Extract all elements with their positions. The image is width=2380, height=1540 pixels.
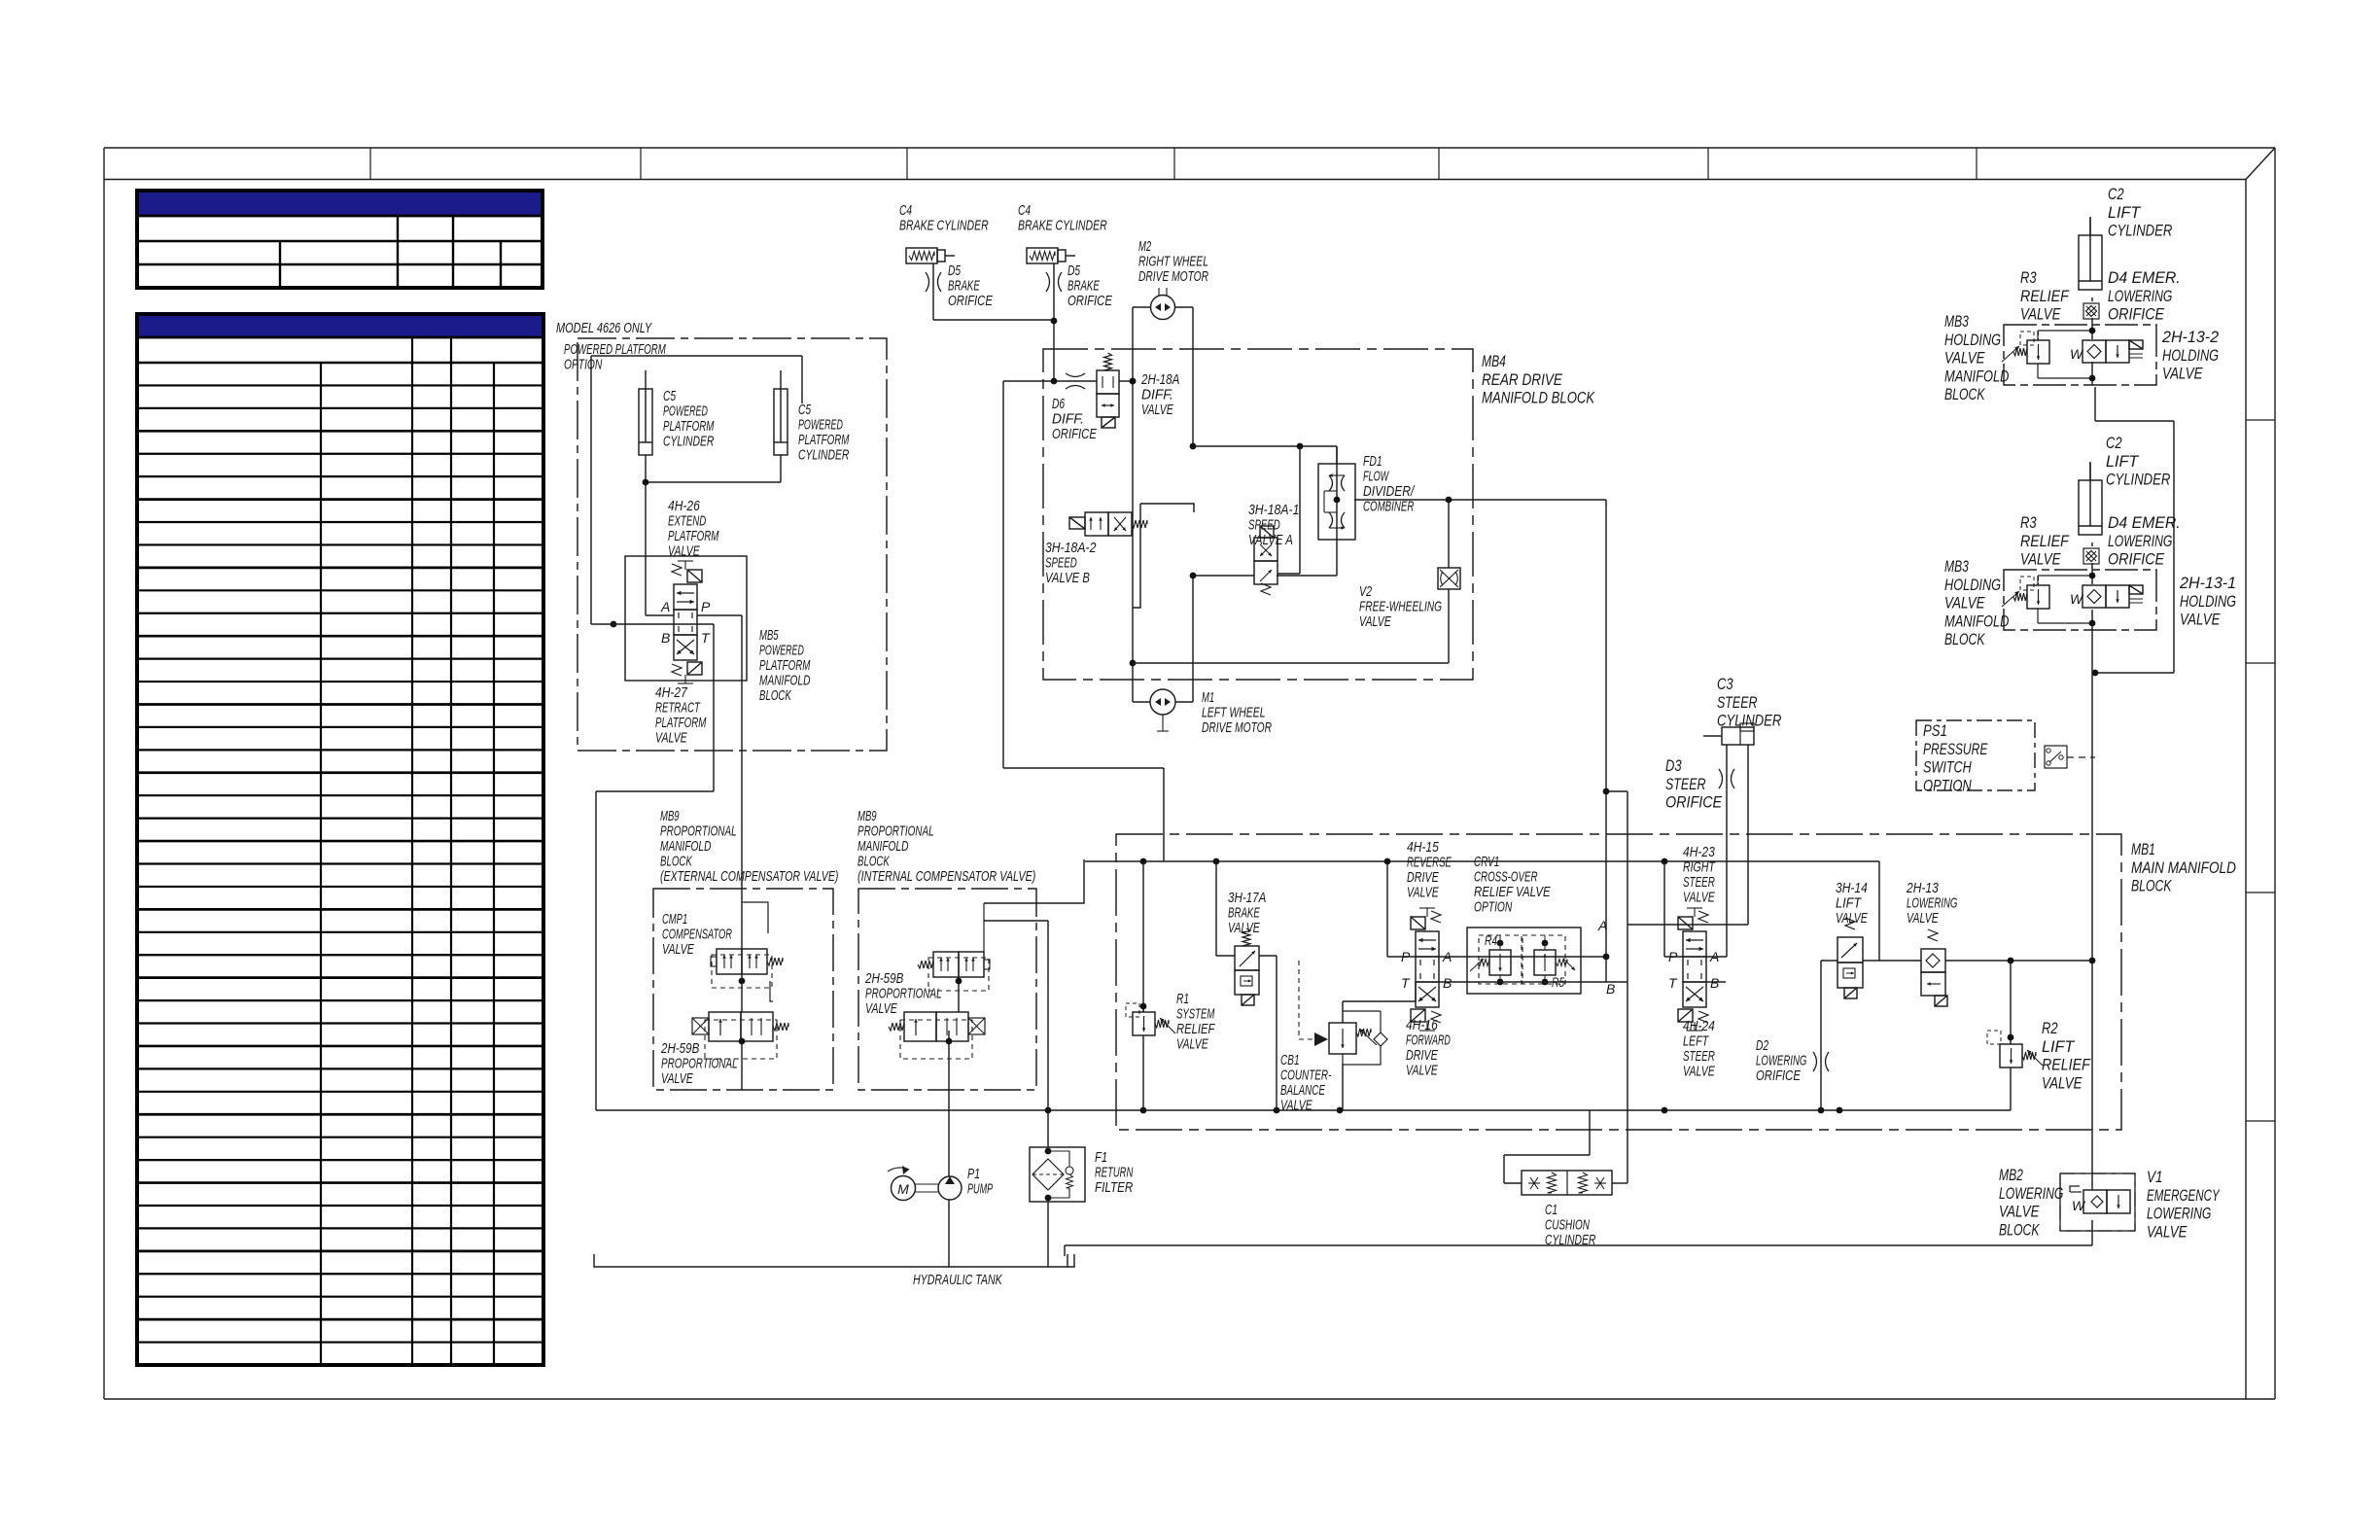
svg-text:W: W	[2072, 1198, 2086, 1213]
svg-text:2H-13: 2H-13	[1906, 880, 1939, 896]
svg-text:CYLINDER: CYLINDER	[663, 434, 715, 450]
svg-text:PROPORTIONAL: PROPORTIONAL	[857, 823, 934, 840]
svg-text:CMP1: CMP1	[662, 911, 687, 927]
svg-text:V2: V2	[1359, 583, 1373, 600]
svg-text:C5: C5	[663, 388, 677, 404]
svg-text:C4: C4	[1018, 202, 1031, 219]
svg-text:STEER: STEER	[1665, 775, 1706, 793]
svg-text:VALVE: VALVE	[2020, 305, 2061, 324]
svg-text:ORIFICE: ORIFICE	[1067, 293, 1113, 309]
svg-text:VALVE: VALVE	[1406, 1063, 1438, 1079]
svg-text:VALVE: VALVE	[655, 730, 687, 747]
svg-text:M: M	[897, 1181, 909, 1197]
svg-text:RELIEF: RELIEF	[1176, 1021, 1215, 1037]
svg-text:MB3: MB3	[1944, 312, 1969, 331]
svg-text:HOLDING: HOLDING	[2180, 592, 2236, 611]
svg-text:POWERED: POWERED	[663, 403, 708, 420]
svg-text:HOLDING: HOLDING	[2162, 346, 2219, 365]
svg-text:MANIFOLD: MANIFOLD	[759, 673, 811, 689]
svg-text:VALVE: VALVE	[1683, 890, 1715, 906]
svg-text:LOWERING: LOWERING	[1756, 1053, 1807, 1069]
svg-text:SWITCH: SWITCH	[1923, 758, 1972, 777]
svg-text:ORIFICE: ORIFICE	[1756, 1067, 1802, 1084]
svg-text:VALVE: VALVE	[2162, 365, 2203, 383]
svg-text:HYDRAULIC TANK: HYDRAULIC TANK	[913, 1272, 1002, 1288]
svg-text:LEFT: LEFT	[1683, 1033, 1710, 1050]
svg-text:VALVE: VALVE	[2020, 550, 2061, 569]
svg-text:4H-16: 4H-16	[1406, 1017, 1438, 1033]
svg-text:4H-15: 4H-15	[1407, 839, 1439, 856]
svg-text:FORWARD: FORWARD	[1406, 1032, 1451, 1049]
svg-text:D6: D6	[1052, 396, 1066, 412]
svg-text:PLATFORM: PLATFORM	[655, 715, 707, 731]
svg-text:STEER: STEER	[1683, 1048, 1715, 1065]
svg-text:MB1: MB1	[2131, 840, 2155, 858]
svg-text:MANIFOLD BLOCK: MANIFOLD BLOCK	[1482, 389, 1595, 407]
svg-text:VALVE: VALVE	[1280, 1098, 1312, 1114]
svg-text:COMBINER: COMBINER	[1363, 499, 1415, 515]
svg-text:PLATFORM: PLATFORM	[798, 432, 850, 448]
svg-text:MB4: MB4	[1482, 352, 1506, 370]
svg-text:C4: C4	[899, 202, 912, 219]
svg-text:VALVE: VALVE	[1359, 613, 1391, 630]
svg-text:MANIFOLD: MANIFOLD	[1944, 367, 2009, 385]
svg-text:R2: R2	[2042, 1019, 2058, 1037]
svg-text:LIFT: LIFT	[1836, 895, 1863, 912]
svg-text:ORIFICE: ORIFICE	[2108, 550, 2165, 569]
svg-text:VALVE: VALVE	[1944, 594, 1985, 612]
svg-text:RETRACT: RETRACT	[655, 700, 701, 717]
svg-text:V1: V1	[2147, 1168, 2163, 1186]
svg-text:CYLINDER: CYLINDER	[2106, 471, 2170, 489]
svg-text:COMPENSATOR: COMPENSATOR	[662, 927, 732, 943]
svg-text:BLOCK: BLOCK	[2131, 877, 2172, 895]
svg-text:T: T	[1668, 975, 1678, 991]
svg-text:POWERED: POWERED	[798, 417, 843, 434]
svg-text:3H-14: 3H-14	[1836, 880, 1868, 896]
svg-text:BRAKE CYLINDER: BRAKE CYLINDER	[899, 218, 989, 234]
svg-text:CRV1: CRV1	[1474, 854, 1499, 870]
svg-text:PROPORTIONAL: PROPORTIONAL	[660, 823, 737, 840]
svg-text:PLATFORM: PLATFORM	[663, 418, 715, 435]
svg-text:ORIFICE: ORIFICE	[2108, 305, 2165, 324]
svg-text:DRIVE: DRIVE	[1407, 869, 1440, 886]
svg-text:FD1: FD1	[1363, 453, 1382, 470]
svg-text:BRAKE: BRAKE	[1228, 905, 1260, 922]
svg-text:DRIVE MOTOR: DRIVE MOTOR	[1138, 268, 1208, 285]
svg-text:2H-59B: 2H-59B	[660, 1040, 699, 1057]
svg-text:RETURN: RETURN	[1095, 1165, 1133, 1181]
svg-text:ORIFICE: ORIFICE	[1052, 426, 1098, 442]
svg-text:LOWERING: LOWERING	[2108, 532, 2172, 550]
svg-text:D5: D5	[948, 262, 962, 279]
svg-text:LIFT: LIFT	[2106, 452, 2140, 471]
svg-text:VALVE B: VALVE B	[1045, 570, 1090, 586]
svg-text:W: W	[2070, 591, 2084, 607]
svg-text:LOWERING: LOWERING	[2147, 1205, 2211, 1223]
svg-text:MANIFOLD: MANIFOLD	[857, 838, 909, 855]
svg-text:F1: F1	[1095, 1149, 1107, 1166]
svg-text:B: B	[1606, 981, 1615, 997]
svg-text:CYLINDER: CYLINDER	[2108, 222, 2172, 240]
svg-text:C3: C3	[1717, 675, 1733, 693]
svg-text:BLOCK: BLOCK	[759, 687, 791, 704]
svg-text:BLOCK: BLOCK	[660, 854, 692, 870]
svg-text:VALVE A: VALVE A	[1248, 532, 1293, 548]
svg-text:2H-13-1: 2H-13-1	[2179, 574, 2236, 592]
svg-text:FREE-WHEELING: FREE-WHEELING	[1359, 599, 1442, 615]
svg-text:4H-26: 4H-26	[668, 498, 700, 514]
svg-text:OPTION: OPTION	[1923, 776, 1972, 794]
svg-text:DIVIDER/: DIVIDER/	[1363, 483, 1416, 500]
svg-text:(INTERNAL COMPENSATOR VALVE): (INTERNAL COMPENSATOR VALVE)	[857, 868, 1035, 885]
svg-text:VALVE: VALVE	[668, 543, 700, 560]
svg-text:POWERED: POWERED	[759, 643, 804, 659]
svg-text:PROPORTIONAL: PROPORTIONAL	[661, 1056, 738, 1072]
svg-text:BRAKE: BRAKE	[948, 278, 980, 295]
svg-text:3H-18A-2: 3H-18A-2	[1045, 540, 1097, 556]
svg-text:LOWERING: LOWERING	[1999, 1184, 2063, 1203]
svg-text:RELIEF VALVE: RELIEF VALVE	[1474, 884, 1551, 900]
svg-text:3H-17A: 3H-17A	[1228, 890, 1266, 906]
svg-text:VALVE: VALVE	[2180, 611, 2221, 629]
svg-text:CUSHION: CUSHION	[1545, 1217, 1590, 1234]
svg-text:SYSTEM: SYSTEM	[1176, 1006, 1215, 1023]
svg-text:P1: P1	[967, 1166, 980, 1182]
svg-text:R4: R4	[1485, 932, 1497, 948]
svg-text:CB1: CB1	[1280, 1052, 1300, 1068]
svg-text:2H-18A: 2H-18A	[1140, 371, 1179, 388]
svg-text:STEER: STEER	[1683, 874, 1715, 891]
svg-text:MB3: MB3	[1944, 557, 1969, 576]
svg-text:LIFT: LIFT	[2108, 203, 2142, 222]
svg-text:R3: R3	[2020, 513, 2037, 532]
svg-text:MB9: MB9	[857, 808, 877, 824]
svg-text:C2: C2	[2106, 434, 2122, 452]
svg-text:D2: D2	[1756, 1037, 1769, 1054]
svg-text:MB9: MB9	[660, 808, 680, 824]
svg-text:VALVE: VALVE	[1836, 910, 1868, 927]
svg-text:DIFF.: DIFF.	[1141, 387, 1173, 403]
svg-text:PS1: PS1	[1923, 721, 1947, 740]
svg-text:T: T	[1401, 975, 1411, 991]
svg-text:BRAKE: BRAKE	[1067, 278, 1100, 295]
svg-text:VALVE: VALVE	[2147, 1222, 2187, 1241]
svg-text:CYLINDER: CYLINDER	[1545, 1232, 1596, 1248]
svg-text:COUNTER-: COUNTER-	[1280, 1067, 1331, 1084]
svg-text:MANIFOLD: MANIFOLD	[660, 838, 712, 855]
svg-text:DRIVE: DRIVE	[1406, 1047, 1439, 1064]
svg-text:D4 EMER.: D4 EMER.	[2108, 268, 2181, 287]
svg-text:4H-23: 4H-23	[1683, 844, 1715, 860]
svg-text:VALVE: VALVE	[1683, 1064, 1715, 1080]
svg-text:PUMP: PUMP	[967, 1181, 993, 1198]
svg-text:W: W	[2070, 346, 2084, 362]
svg-text:RELIEF: RELIEF	[2020, 287, 2070, 305]
svg-text:DRIVE MOTOR: DRIVE MOTOR	[1202, 719, 1272, 736]
svg-text:C5: C5	[798, 402, 812, 418]
svg-text:FILTER: FILTER	[1095, 1179, 1133, 1196]
svg-text:C1: C1	[1545, 1202, 1557, 1218]
svg-text:STEER: STEER	[1717, 693, 1758, 712]
svg-text:3H-18A-1: 3H-18A-1	[1248, 502, 1299, 518]
svg-text:BLOCK: BLOCK	[1944, 630, 1985, 648]
svg-text:REAR DRIVE: REAR DRIVE	[1482, 370, 1563, 389]
svg-text:ORIFICE: ORIFICE	[948, 293, 994, 309]
svg-text:BRAKE CYLINDER: BRAKE CYLINDER	[1018, 218, 1107, 234]
svg-text:T: T	[701, 630, 711, 646]
svg-text:FLOW: FLOW	[1363, 469, 1389, 485]
svg-text:D5: D5	[1067, 262, 1081, 279]
svg-text:VALVE: VALVE	[1176, 1036, 1208, 1053]
svg-text:BLOCK: BLOCK	[857, 854, 890, 870]
svg-text:REVERSE: REVERSE	[1407, 855, 1452, 871]
svg-text:(EXTERNAL COMPENSATOR VALVE): (EXTERNAL COMPENSATOR VALVE)	[660, 868, 838, 885]
svg-text:VALVE: VALVE	[2042, 1073, 2082, 1092]
svg-text:LEFT WHEEL: LEFT WHEEL	[1202, 705, 1266, 721]
svg-text:VALVE: VALVE	[1999, 1203, 2040, 1221]
svg-text:OPTION: OPTION	[564, 357, 602, 373]
svg-text:VALVE: VALVE	[1907, 910, 1939, 927]
svg-text:D3: D3	[1665, 756, 1682, 775]
svg-text:R3: R3	[2020, 268, 2037, 287]
svg-text:B: B	[661, 630, 670, 646]
svg-text:PLATFORM: PLATFORM	[759, 657, 811, 674]
svg-text:LIFT: LIFT	[2042, 1037, 2076, 1056]
svg-text:EXTEND: EXTEND	[668, 513, 706, 530]
svg-text:2H-13-2: 2H-13-2	[2161, 328, 2220, 346]
svg-text:PROPORTIONAL: PROPORTIONAL	[865, 986, 942, 1002]
svg-text:RELIEF: RELIEF	[2020, 532, 2070, 550]
svg-text:VALVE: VALVE	[865, 1000, 897, 1017]
svg-text:VALVE: VALVE	[661, 1070, 693, 1087]
svg-text:OPTION: OPTION	[1474, 899, 1512, 916]
svg-text:MANIFOLD: MANIFOLD	[1944, 612, 2009, 630]
svg-text:M2: M2	[1138, 238, 1152, 255]
svg-text:RIGHT: RIGHT	[1683, 859, 1716, 876]
svg-text:HOLDING: HOLDING	[1944, 331, 2001, 349]
svg-text:PLATFORM: PLATFORM	[668, 528, 719, 544]
svg-text:MAIN MANIFOLD: MAIN MANIFOLD	[2131, 858, 2236, 877]
svg-text:R1: R1	[1176, 991, 1189, 1007]
svg-text:A: A	[660, 599, 670, 614]
svg-text:4H-24: 4H-24	[1683, 1018, 1715, 1034]
svg-text:MODEL 4626 ONLY: MODEL 4626 ONLY	[556, 320, 652, 336]
svg-text:EMERGENCY: EMERGENCY	[2147, 1186, 2221, 1205]
svg-text:ORIFICE: ORIFICE	[1665, 793, 1723, 812]
svg-text:MB5: MB5	[759, 627, 779, 644]
svg-text:4H-27: 4H-27	[655, 684, 687, 701]
svg-text:BALANCE: BALANCE	[1280, 1082, 1326, 1099]
svg-text:CROSS-OVER: CROSS-OVER	[1474, 869, 1538, 886]
svg-text:C2: C2	[2108, 185, 2124, 203]
svg-text:B: B	[1443, 975, 1452, 991]
svg-text:2H-59B: 2H-59B	[864, 970, 903, 987]
svg-text:LOWERING: LOWERING	[1907, 895, 1958, 912]
svg-text:M1: M1	[1202, 689, 1214, 706]
svg-text:DIFF.: DIFF.	[1052, 411, 1084, 428]
svg-text:VALVE: VALVE	[662, 941, 694, 958]
svg-text:BLOCK: BLOCK	[1944, 385, 1985, 403]
svg-text:BLOCK: BLOCK	[1999, 1220, 2040, 1239]
svg-text:HOLDING: HOLDING	[1944, 576, 2001, 594]
svg-text:VALVE: VALVE	[1407, 885, 1439, 901]
svg-text:MB2: MB2	[1999, 1166, 2023, 1184]
svg-text:B: B	[1710, 975, 1719, 991]
svg-text:RELIEF: RELIEF	[2042, 1056, 2091, 1074]
svg-text:SPEED: SPEED	[1045, 555, 1077, 572]
svg-text:RIGHT WHEEL: RIGHT WHEEL	[1138, 254, 1208, 270]
svg-text:P: P	[701, 599, 711, 614]
svg-text:LOWERING: LOWERING	[2108, 287, 2172, 305]
svg-text:VALVE: VALVE	[1944, 349, 1985, 367]
svg-text:D4 EMER.: D4 EMER.	[2108, 513, 2181, 532]
svg-text:CYLINDER: CYLINDER	[798, 447, 850, 464]
svg-text:VALVE: VALVE	[1141, 402, 1173, 418]
svg-text:SPEED: SPEED	[1248, 517, 1280, 534]
svg-text:PRESSURE: PRESSURE	[1923, 740, 1988, 758]
